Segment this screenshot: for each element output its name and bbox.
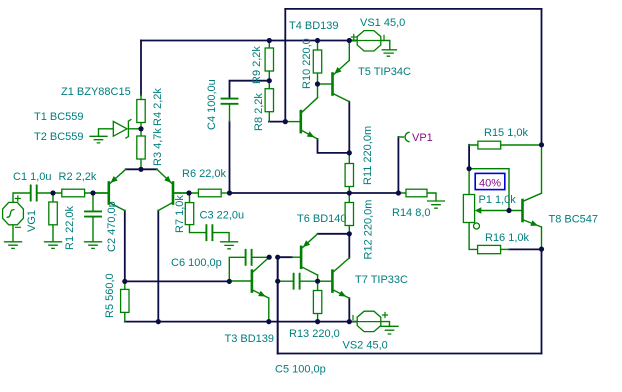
node rail T3 emitter (266, 319, 271, 324)
svg-text:C6 100,0p: C6 100,0p (171, 257, 222, 269)
wire P1 wiper loop (469, 169, 509, 211)
potentiometer P1 circle (474, 223, 480, 229)
resistor R16 (478, 245, 501, 253)
wire C4 top elbow (230, 81, 270, 98)
wire R10 leads (317, 41, 319, 85)
svg-text:R1 22,0k: R1 22,0k (64, 205, 76, 250)
svg-text:T8 BC547: T8 BC547 (549, 214, 599, 226)
node C1/R1 (50, 190, 55, 195)
source VS1 (351, 31, 384, 51)
wire Z1 cathode to node (130, 128, 141, 130)
node rail R13 (315, 319, 320, 324)
wire R11 leads (348, 153, 350, 193)
node T5 base R10 (315, 81, 320, 86)
transistor T2 (157, 169, 189, 210)
wire bottom return rail (278, 353, 542, 355)
svg-text:R12 220,0m: R12 220,0m (363, 200, 375, 260)
wire P1 top lead (468, 169, 470, 195)
svg-text:T2 BC559: T2 BC559 (34, 131, 84, 143)
ground VS2 (381, 326, 398, 334)
wire VAS input row (125, 280, 230, 282)
capacitor C4 (222, 99, 238, 104)
40% display box (475, 173, 505, 189)
wire right outer drop (541, 9, 543, 145)
svg-text:R3 4,7k: R3 4,7k (152, 128, 164, 166)
wire VG1 ground lead (12, 225, 14, 242)
wire C3 right to ground (213, 233, 229, 242)
resistor R9 (265, 48, 273, 71)
ground VG1 (5, 242, 22, 249)
wire R5 leads (124, 281, 126, 321)
wire drop to R4 (140, 41, 142, 96)
wire right drop T8 emitter to bottom (541, 249, 543, 353)
node T6 base riser (275, 255, 280, 260)
node R15 P1 (467, 166, 472, 171)
wire left drop to T4 base (284, 9, 286, 122)
resistor R4 (137, 100, 145, 123)
wire C4 bottom drop (229, 122, 231, 193)
wire T4 collector riser (317, 84, 319, 98)
transistor T8 (523, 193, 542, 227)
node T2 base/R6/R7 (186, 190, 191, 195)
node T4 emitter T5 collector R11 (347, 150, 352, 155)
wire T2 base to R6 (174, 192, 198, 194)
wire C2 leads (92, 193, 94, 242)
svg-text:VS1 45,0: VS1 45,0 (360, 17, 405, 29)
wire T8 emitter drop (541, 227, 543, 249)
transistor T1 (93, 169, 126, 210)
svg-text:C4 100,0u: C4 100,0u (206, 79, 218, 130)
node R16 T8 emitter (539, 247, 544, 252)
svg-text:R8 2,2k: R8 2,2k (253, 93, 265, 131)
svg-text:C5 100,0p: C5 100,0p (275, 364, 326, 376)
wire R9 leads (268, 41, 270, 81)
node Z1/R4/R3 (138, 126, 143, 131)
svg-text:T6 BD140: T6 BD140 (297, 213, 347, 225)
svg-text:T7 TIP33C: T7 TIP33C (355, 274, 408, 286)
svg-text:Z1 BZY88C15: Z1 BZY88C15 (61, 86, 131, 98)
capacitor C1 (31, 186, 37, 201)
wire T7 emitter drop (348, 298, 350, 321)
resistor R2 (62, 189, 85, 197)
ground Z1 (90, 136, 107, 143)
transistor T7 (332, 258, 349, 298)
svg-text:C1 1,0u: C1 1,0u (13, 171, 52, 183)
svg-text:VG1: VG1 (26, 210, 38, 232)
zener diode Z1 (113, 120, 131, 139)
svg-text:R4 2,2k: R4 2,2k (152, 88, 164, 126)
wire T5 emitter riser (348, 41, 350, 61)
wire T1 collector drop (124, 211, 126, 282)
wire R3 R4 leads (140, 95, 142, 169)
svg-text:R7 1,0k: R7 1,0k (174, 195, 186, 233)
wire output feedback row (230, 192, 399, 194)
svg-text:R9 2,2k: R9 2,2k (251, 46, 263, 84)
wire C6 right lead (252, 256, 269, 258)
resistor R10 (313, 50, 321, 73)
node emitters R3 (138, 167, 143, 172)
wire bottom negative rail (125, 321, 358, 323)
svg-text:T1 BC559: T1 BC559 (34, 111, 84, 123)
node R12 T6 T7 (347, 231, 352, 236)
svg-text:R11 220,0m: R11 220,0m (362, 126, 374, 185)
source VS2 (353, 311, 388, 331)
node feedback C4 (227, 190, 232, 195)
wire emitter tie bar T1 T2 (126, 168, 157, 170)
wire T6 base stub (278, 256, 292, 258)
svg-text:C2 470,0p: C2 470,0p (106, 201, 118, 252)
svg-text:R5 560,0: R5 560,0 (104, 273, 116, 318)
wire R2 to node B (85, 192, 108, 194)
wire top outer rail (285, 8, 541, 10)
transistor T6 (301, 234, 318, 275)
capacitor C5 (294, 274, 300, 289)
svg-text:R13 220,0: R13 220,0 (289, 328, 340, 340)
resistor R12 (345, 203, 353, 226)
resistor R14 (406, 189, 427, 197)
wire P1 bottom elbow (469, 223, 478, 250)
transistor T4 (301, 98, 318, 139)
wire T7 base lead (318, 280, 332, 282)
probe VP1 (405, 132, 409, 141)
wire R7 leads (190, 193, 207, 233)
wire R8 elbow to T4 base (269, 121, 285, 123)
wire T6 base green part (292, 256, 300, 258)
svg-text:R2 2,2k: R2 2,2k (59, 171, 97, 183)
potentiometer P1 body (463, 195, 474, 223)
resistor R1 (49, 202, 58, 225)
wire T5 base lead (318, 83, 332, 85)
wire VG1 to C1 (13, 193, 30, 203)
wire T8 base lead (481, 210, 522, 212)
node R2/C2/T1 base (90, 190, 95, 195)
wire VS1 interior line (357, 40, 381, 42)
wire riser T6-base node (277, 257, 279, 353)
wire VP1 stub (398, 136, 403, 138)
wire VS2 left lead and interior (349, 321, 357, 323)
wire T6 emitter row (318, 233, 350, 235)
wire VP1 drop (397, 137, 399, 193)
resistor R7 (185, 203, 193, 225)
svg-text:P1 1,0k: P1 1,0k (479, 194, 517, 206)
node rail R10 (315, 38, 320, 43)
node T7 base R13 C5 (315, 279, 320, 284)
wire R1 leads (52, 193, 54, 242)
svg-text:T3 BD139: T3 BD139 (225, 333, 275, 345)
capacitor C6 (246, 250, 252, 265)
node rail T2 collector (156, 319, 161, 324)
svg-text:R14 8,0: R14 8,0 (392, 207, 431, 219)
node R5 top (122, 279, 127, 284)
wire R8 leads (268, 81, 270, 122)
wire T7 collector riser (348, 234, 350, 258)
node R9 R8 C4 (267, 78, 272, 83)
svg-text:T4 BD139: T4 BD139 (289, 20, 339, 32)
node rail R9 (267, 38, 272, 43)
node T4 base (283, 119, 288, 124)
resistor R6 (198, 189, 221, 197)
svg-text:40%: 40% (479, 177, 501, 189)
node C5 left (275, 279, 280, 284)
node rail VS2 T7 (347, 319, 352, 324)
resistor R5 (121, 289, 129, 312)
wire R16 right segment (509, 248, 542, 250)
resistor R15 (478, 141, 501, 149)
resistor R3 (137, 136, 145, 159)
wire T6 collector stub (317, 275, 319, 281)
transistor T3 (252, 257, 269, 321)
resistor R11 (345, 164, 353, 187)
wire T3 base lead (229, 280, 250, 282)
svg-text:R6 22,0k: R6 22,0k (182, 168, 227, 180)
node T3 collector C6 (267, 255, 272, 260)
wire R14 leads (398, 193, 436, 201)
wire C4 bottom stub (229, 105, 231, 122)
wire R13 leads (317, 281, 319, 321)
wire VS2 ground elbow (381, 322, 390, 327)
node P1 wiper T8 base (506, 208, 511, 213)
wire R16 right lead (501, 248, 509, 250)
resistor R8 (265, 89, 273, 112)
wire R15 leads (469, 144, 541, 146)
wire Z1 anode to ground (99, 129, 114, 136)
wire T8 collector riser (541, 145, 543, 193)
wire T4 emitter elbow (318, 139, 350, 153)
svg-text:VS2 45,0: VS2 45,0 (343, 340, 388, 352)
svg-text:R15 1,0k: R15 1,0k (484, 127, 529, 139)
ground C3 (221, 242, 238, 249)
ground R1 (45, 242, 62, 249)
svg-text:C3 22,0u: C3 22,0u (200, 210, 245, 222)
wire C5 node riser (277, 257, 279, 353)
svg-text:R16 1,0k: R16 1,0k (485, 232, 530, 244)
node T3 base (227, 279, 232, 284)
svg-text:VP1: VP1 (412, 132, 433, 144)
svg-text:R10 220,0: R10 220,0 (301, 38, 313, 89)
wire top supply rail (141, 40, 361, 42)
source VG1 (3, 196, 24, 227)
ground C2 (85, 242, 102, 249)
wire C5 leads (278, 280, 318, 282)
node VP1 R14 (396, 190, 401, 195)
transistor T5 (333, 60, 350, 101)
wire T5 collector drop (348, 102, 350, 153)
potentiometer P1 wiper (474, 207, 482, 229)
wire VS1 left lead (349, 40, 357, 42)
node rail T5 (347, 38, 352, 43)
wire R12 leads (348, 193, 350, 234)
ground R14 (428, 201, 445, 208)
ground VS1 (382, 50, 396, 56)
node R15 T8 collector (539, 142, 544, 147)
node output (347, 190, 352, 195)
capacitor C3 (206, 225, 212, 240)
resistor R13 (313, 291, 321, 314)
wire R15 left drop (468, 145, 470, 169)
svg-text:T5 TIP34C: T5 TIP34C (358, 66, 411, 78)
wire VS1 ground elbow (381, 41, 390, 50)
wire R6 right lead (221, 192, 229, 194)
wire C1 to node A (38, 192, 62, 194)
capacitor C2 (85, 211, 101, 216)
wire T4 base lead (285, 121, 299, 123)
wire T2 collector drop (157, 211, 159, 322)
wire C6 left elbow (229, 257, 245, 281)
